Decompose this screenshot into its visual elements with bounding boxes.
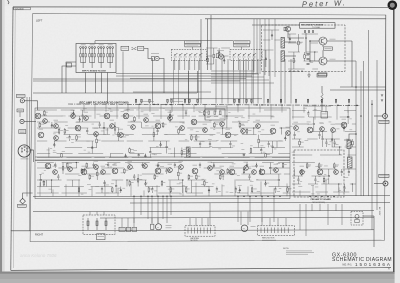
wire — [30, 230, 374, 231]
value label — [331, 123, 336, 126]
transistor Q21 — [220, 122, 225, 127]
transistor Q56 — [229, 169, 235, 175]
bus label 4 — [215, 105, 227, 108]
wire osc area drop — [239, 59, 241, 104]
svg-text:LEFT: LEFT — [36, 19, 43, 23]
head connector group J1 — [80, 44, 87, 68]
value label — [128, 160, 133, 163]
svg-text:AC 120V: AC 120V — [378, 207, 381, 216]
junction — [309, 60, 311, 62]
svg-text:anna Kelono 7506: anna Kelono 7506 — [20, 253, 57, 258]
wire — [130, 78, 246, 80]
band bus drop wires — [84, 104, 348, 120]
transistor Q44 — [81, 169, 87, 175]
wire osc area drop — [269, 59, 271, 104]
wire J2 to boundary — [24, 121, 32, 123]
value label — [20, 130, 25, 133]
right side vertical drops — [300, 204, 342, 236]
wire Q102 base — [310, 60, 319, 62]
wire head board down 0 — [85, 73, 87, 94]
transistor Q54 — [208, 166, 213, 171]
value label — [82, 165, 87, 168]
output jack diamond J4 — [20, 198, 26, 204]
junction — [305, 37, 307, 39]
line out jack upper — [383, 114, 388, 119]
punch hole — [388, 0, 398, 10]
value label — [260, 165, 265, 168]
wire J1 to boundary — [24, 100, 32, 102]
transistor Q57 — [244, 166, 249, 171]
value label — [18, 204, 25, 207]
wire osc area drop — [290, 59, 292, 104]
circuit lattice left channel output — [292, 111, 356, 156]
transistor Q101 — [319, 37, 327, 45]
pen mark top left — [8, 0, 10, 4]
junction — [371, 103, 373, 105]
svg-text:RIGHT: RIGHT — [35, 233, 43, 237]
bias trap coil L1 — [347, 140, 351, 149]
circuit lattice rec mode board interior — [288, 34, 318, 69]
transistor Q50 — [155, 168, 161, 174]
label box OSC — [324, 47, 333, 50]
switch contact box REC BIAS SW — [171, 49, 206, 60]
value label — [256, 119, 261, 122]
value label — [217, 49, 224, 52]
value label — [71, 109, 76, 112]
left page-edge shading — [0, 0, 2, 283]
wire osc area drop — [263, 59, 265, 104]
transistor Q29 — [320, 127, 325, 132]
transistor Q43 — [68, 167, 73, 172]
value label — [262, 239, 276, 242]
circuit lattice right channel output — [292, 163, 356, 193]
wire osc area drop — [227, 59, 229, 104]
head connector box — [97, 234, 106, 240]
wire bus to frame left — [11, 230, 30, 232]
value label — [43, 114, 48, 117]
wire label to left — [252, 24, 300, 26]
value label — [380, 174, 389, 177]
wire — [197, 71, 199, 93]
value label — [274, 163, 279, 166]
erase head box — [83, 215, 115, 235]
cap row top — [305, 30, 306, 33]
value label — [203, 123, 208, 126]
svg-text:REC MODE PC BOARD: REC MODE PC BOARD — [301, 23, 324, 26]
fan wires lower left of rec mode board — [211, 71, 274, 83]
value label — [94, 160, 99, 163]
wire line-in feed — [33, 101, 38, 110]
wire legend to switch — [144, 48, 152, 58]
wire — [344, 134, 356, 140]
value label — [168, 163, 173, 166]
wire — [188, 71, 190, 104]
osc coil T102 — [281, 51, 285, 61]
wire osc output down — [351, 41, 353, 87]
transistor Q46 — [101, 170, 106, 175]
value label — [94, 127, 99, 130]
wire — [200, 19, 202, 104]
value label — [39, 128, 44, 131]
mid band coil — [187, 147, 191, 157]
switch group pin drops to bus — [174, 61, 254, 104]
value label — [286, 251, 314, 254]
wire J3 to boundary — [30, 149, 32, 151]
transistor Q2 — [43, 119, 48, 124]
wire head board top across — [95, 40, 233, 42]
scattered value labels lower band — [39, 163, 348, 195]
transistor Q8 — [84, 116, 89, 121]
value label — [18, 109, 23, 112]
transistor Q1 — [35, 113, 41, 119]
wire switch down — [159, 59, 164, 94]
value label — [241, 124, 246, 127]
input jack J1 — [20, 99, 24, 103]
pot cluster box — [205, 109, 225, 120]
transistor Q23 — [241, 129, 246, 134]
junction dots row in REC MODE board — [289, 71, 290, 72]
legend symbol — [132, 48, 134, 50]
svg-text:SRP PC BOARD YD-5008: SRP PC BOARD YD-5008 — [82, 69, 107, 72]
wire head board down 2 — [107, 73, 109, 104]
wire Q102 collector — [327, 60, 356, 62]
wire Q101 collector — [327, 40, 352, 42]
value label — [105, 109, 110, 112]
bottom row box feed wires — [90, 203, 286, 227]
transistor Q18 — [180, 126, 185, 131]
value label — [76, 121, 81, 124]
wire osc area drop — [215, 59, 217, 104]
value label — [286, 126, 291, 129]
cap column mid — [307, 54, 310, 55]
transistor Q59 — [259, 169, 265, 175]
transistor Q17 — [168, 116, 173, 121]
left feed verticals into rec mode board — [254, 19, 275, 77]
inner boundary rectangle — [30, 14, 386, 242]
value label — [127, 228, 130, 231]
wire mic feed — [33, 121, 36, 123]
wire — [116, 75, 252, 77]
transistor Q47 — [112, 168, 118, 174]
wire osc area drop — [284, 59, 286, 104]
circuit lattice rec mode board left — [263, 30, 280, 67]
transistor Q53 — [192, 168, 198, 174]
circuit lattice right channel amp — [37, 162, 291, 193]
transistor Q49 — [143, 164, 148, 169]
wire head board to bus 2 — [62, 66, 76, 93]
transistor Q31 — [341, 122, 347, 128]
value label — [151, 52, 159, 55]
value label — [300, 165, 305, 168]
riser components standing on bus — [135, 99, 350, 104]
board box REC MODE PC BOARD TO-500A — [262, 25, 346, 72]
motor M1 capstan — [151, 224, 154, 229]
jack label PB — [19, 130, 26, 134]
transistor Q41 — [45, 163, 51, 169]
value label — [179, 160, 184, 163]
svg-text:NO. R-1: NO. R-1 — [343, 263, 353, 266]
sub-board outline right channel — [35, 161, 290, 199]
board bus REC AMP PC BOARD — [68, 104, 360, 105]
wire Q103b to caps — [288, 32, 304, 38]
transistor Q63 — [334, 170, 339, 175]
label box OSC SELECT SW upper — [234, 41, 251, 44]
wire osc area drop — [251, 59, 253, 104]
label monitor switch — [305, 105, 331, 108]
wire to upper jack — [374, 115, 383, 117]
wire — [33, 92, 197, 94]
counter boxes — [119, 227, 125, 231]
transistor Q4 — [38, 132, 44, 138]
wire — [29, 97, 31, 231]
wire — [33, 80, 240, 82]
value label — [286, 250, 312, 253]
value label — [120, 228, 125, 231]
transistor Q58 — [252, 170, 257, 175]
wire — [170, 98, 262, 100]
wire OSC label to Q102 — [322, 50, 324, 57]
wire vertical left of osc — [210, 15, 212, 70]
wire osc area drop — [257, 59, 259, 104]
value label — [193, 164, 198, 167]
wire — [26, 97, 28, 197]
bus junction dots — [139, 104, 141, 106]
transistor Q11 — [110, 124, 115, 129]
value label — [54, 119, 59, 122]
transistor Q48 — [128, 165, 133, 170]
transistor Q51 — [168, 168, 173, 173]
value label — [168, 111, 173, 114]
wire to lower jack — [374, 183, 383, 185]
transistor Q12 — [119, 133, 124, 138]
transistor Q60 — [274, 168, 279, 173]
value label — [220, 117, 225, 120]
transistor Q9 — [94, 132, 99, 137]
value label — [20, 131, 25, 134]
value label — [251, 225, 256, 228]
wire resistor bottom — [321, 102, 323, 110]
junction — [309, 40, 311, 42]
head connector group J2 — [89, 44, 96, 68]
small arrows on right wires — [381, 94, 383, 96]
value label — [119, 128, 124, 131]
transistor Q5 — [54, 136, 59, 141]
jack label MIC — [17, 109, 23, 112]
bias label box — [317, 74, 327, 78]
transistor Q15 — [144, 118, 149, 123]
schematic border frame — [13, 6, 390, 8]
junction — [355, 86, 357, 88]
value label — [325, 47, 332, 50]
value label — [113, 164, 118, 167]
value label — [101, 165, 106, 168]
wire osc area drop — [221, 59, 223, 104]
transistor Q103b — [285, 26, 290, 31]
wire osc area drop — [245, 59, 247, 104]
value label — [124, 109, 129, 112]
wire to right margin 2 — [330, 89, 386, 91]
line out jack lower — [383, 181, 388, 186]
mic jack J2 — [20, 119, 24, 123]
value label — [36, 109, 41, 112]
value label — [271, 124, 276, 127]
record/play relay S1 — [152, 57, 155, 61]
ground symbol rec mode — [307, 73, 310, 78]
transistor Q20 — [203, 128, 208, 133]
wire — [33, 78, 198, 80]
wire — [130, 201, 390, 204]
bias trap coil L2 — [348, 157, 353, 168]
value label — [244, 161, 249, 164]
value label — [17, 95, 24, 98]
transistor Q7 — [75, 125, 81, 131]
wire head board down — [95, 73, 97, 94]
value label — [156, 119, 161, 122]
jack label LINE OUT left — [18, 204, 27, 207]
wire — [100, 216, 374, 219]
value label — [308, 123, 313, 126]
legend box 1 — [121, 46, 129, 50]
svg-text:NOTE:: NOTE: — [283, 248, 290, 250]
value label — [294, 121, 299, 124]
transistor Q22 — [225, 132, 231, 138]
scattered value labels upper band — [47, 108, 353, 155]
transistor Q28 — [307, 127, 313, 133]
head connector group J3 — [98, 44, 105, 68]
wire resistor top — [321, 86, 323, 93]
wire J4 up — [23, 193, 33, 199]
transistor Q14 — [131, 125, 136, 130]
transistor Q19 — [191, 119, 197, 125]
junction — [360, 115, 362, 117]
wire inner-right vertical — [385, 15, 387, 114]
svg-text:GX-6300: GX-6300 — [15, 8, 25, 10]
transistor Q3 — [54, 124, 59, 129]
value label — [110, 119, 115, 122]
transistor Q25 — [270, 128, 276, 134]
value label — [122, 47, 128, 50]
bus label 3 — [173, 100, 183, 103]
svg-text:PRE AMP PC BOARD: PRE AMP PC BOARD — [311, 198, 332, 201]
value label — [166, 226, 172, 229]
wire head board down 1 — [101, 73, 103, 94]
value label — [143, 159, 148, 162]
bus label 2 — [140, 100, 154, 103]
value label — [380, 120, 389, 123]
right margin vertical wire bundle — [356, 30, 377, 230]
value label — [286, 253, 308, 256]
value label — [226, 128, 231, 131]
circuit lattice bias select interior — [206, 48, 230, 64]
value label — [330, 58, 336, 61]
value label — [53, 165, 58, 168]
wire — [241, 47, 243, 49]
wire — [133, 91, 211, 93]
wire — [152, 58, 154, 104]
wire — [192, 47, 194, 49]
junction — [355, 133, 357, 135]
wire top bus — [205, 18, 386, 20]
wire caps column — [305, 33, 307, 54]
value label — [230, 165, 235, 168]
wire to right margin — [340, 86, 386, 88]
transistor Q16 — [155, 123, 161, 129]
transistor Q52 — [179, 165, 184, 170]
svg-text:TO-500A: TO-500A — [312, 26, 320, 29]
legend box 2 — [138, 47, 144, 51]
value label — [156, 164, 161, 167]
wire power down — [373, 216, 375, 247]
frame title tag GX-6300 — [14, 7, 31, 9]
value label — [144, 113, 149, 116]
jack label LINE OUT lower — [379, 174, 389, 177]
REC MODE label box right margin — [318, 73, 327, 76]
wire base link — [309, 41, 311, 61]
value label — [138, 47, 142, 50]
label box REC BIAS SW upper — [185, 41, 202, 44]
right margin resistor — [321, 93, 323, 102]
band bottom rise wires — [40, 179, 339, 196]
reel motor box — [258, 226, 295, 236]
label box REC BIAS SW lower — [185, 44, 201, 47]
wire — [35, 156, 290, 158]
transistor Q45 — [94, 165, 99, 170]
value label — [54, 131, 59, 134]
bottom page-edge band — [0, 272, 400, 283]
wire head board to bus — [66, 62, 76, 93]
wire — [33, 195, 390, 198]
transistor Q26 — [286, 131, 291, 136]
cal box right margin — [321, 112, 328, 119]
head board stub component — [67, 63, 72, 67]
value label — [46, 159, 51, 162]
value label — [180, 121, 185, 124]
wire din feed — [30, 150, 33, 162]
wire — [348, 149, 350, 158]
power input box — [351, 212, 363, 226]
wire legend down — [122, 52, 124, 94]
value label — [342, 118, 347, 121]
board box SRP PC BOARD YD-5008 — [76, 44, 116, 73]
sub-board outline left channel — [35, 108, 290, 160]
transistor Q6 — [71, 114, 76, 119]
circuit lattice left channel amp — [37, 110, 290, 158]
value label — [98, 235, 105, 238]
transistor Q27 — [294, 126, 299, 131]
label box REC MODE PC BOARD — [300, 23, 336, 29]
osc coil T101 — [281, 38, 285, 49]
value label — [330, 38, 336, 41]
value label — [208, 161, 213, 164]
jack label LINE IN — [16, 95, 25, 98]
value label — [68, 162, 73, 165]
value label — [318, 165, 323, 168]
svg-text:REEL MOTOR: REEL MOTOR — [262, 238, 275, 240]
value label — [252, 165, 257, 168]
value label — [334, 165, 339, 168]
transistor Q30 — [331, 128, 336, 133]
value label — [320, 122, 325, 125]
wire coil T102 tap — [285, 55, 297, 57]
lower bus junction dots — [133, 196, 135, 198]
value label — [166, 224, 172, 227]
transistor Q42 — [53, 170, 58, 175]
transistor Q10 — [104, 113, 110, 119]
transistor Q61 — [300, 170, 305, 175]
wire mic label down — [19, 112, 21, 117]
wire head board top drop — [94, 41, 96, 44]
wire power to right — [363, 215, 374, 217]
